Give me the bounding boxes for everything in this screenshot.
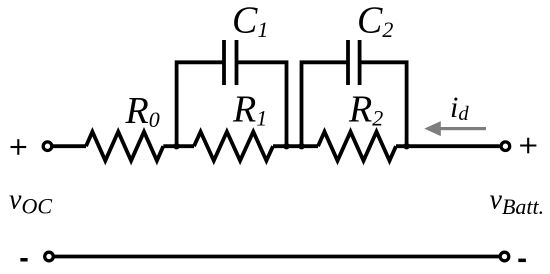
wire C2 right branch (361, 62, 407, 146)
svg-text:vBatt.: vBatt. (490, 184, 545, 219)
plus sign right (520, 138, 536, 154)
svg-text:R0: R0 (125, 90, 160, 132)
resistor R2 (318, 132, 396, 161)
wire C2 left branch (302, 62, 347, 146)
plus sign left (11, 139, 27, 155)
wire C1 right branch (238, 62, 287, 146)
terminal right positive (501, 142, 510, 151)
svg-text:id: id (450, 91, 469, 125)
wire left terminal to R0 (53, 144, 86, 148)
capacitor C1 (224, 40, 237, 85)
resistor R0 (86, 132, 163, 161)
svg-text:C2: C2 (357, 0, 393, 42)
node B junction dot (283, 143, 289, 149)
wire R2 to right terminal (396, 144, 500, 148)
terminal bottom right negative (500, 252, 509, 261)
svg-text:R2: R2 (348, 89, 383, 131)
minus sign left (20, 258, 27, 262)
terminal bottom left negative (45, 252, 54, 261)
capacitor C2 (348, 40, 360, 85)
wire R0 to R1 (163, 144, 194, 148)
bottom wire (54, 255, 499, 259)
wire C1 left branch (177, 62, 223, 146)
svg-text:C1: C1 (232, 0, 268, 42)
node D junction dot (403, 143, 409, 149)
svg-text:R1: R1 (232, 89, 267, 131)
wire R1 to R2 (273, 144, 318, 148)
node A junction dot (173, 143, 179, 149)
svg-text:vOC: vOC (9, 184, 52, 218)
current arrow id (424, 121, 486, 136)
node C junction dot (298, 143, 304, 149)
resistor R1 (194, 132, 273, 161)
minus sign right (518, 259, 526, 263)
terminal left positive (43, 142, 52, 151)
